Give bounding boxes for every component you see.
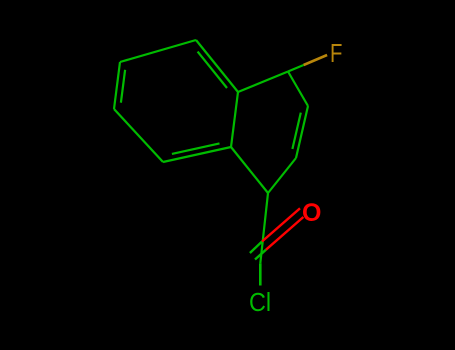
C=O double bond line 2 green half <box>255 250 266 260</box>
bond carbonyl C to Cl label <box>259 263 262 285</box>
atom label Cl <box>249 287 271 318</box>
ring bond P-A <box>196 40 238 92</box>
ring bond A-B <box>120 40 196 62</box>
atom label O <box>302 199 321 228</box>
ring bond G-H <box>288 72 308 107</box>
olive half of bond G to F label <box>304 55 328 65</box>
double bond inner line H=I <box>292 113 300 149</box>
bond J to carbonyl C <box>260 193 268 263</box>
ring bond J-Q <box>231 147 268 193</box>
double bond inner line P=A <box>198 52 227 88</box>
ring bond D-Q <box>163 147 231 162</box>
ring bond P-G <box>238 72 288 93</box>
C=O double bond line 2 red half <box>266 217 303 250</box>
double bond inner line B=C <box>121 70 125 103</box>
ring bond I-J <box>268 158 296 193</box>
ring bond H-I <box>296 106 308 158</box>
C=O double bond line 1 green half <box>250 242 262 254</box>
double bond inner line D=Q <box>172 143 220 154</box>
green half of bond G to F label <box>288 65 304 72</box>
C=O double bond line 1 red half <box>262 208 300 241</box>
atom label F <box>330 38 342 69</box>
ring bond C-D <box>114 109 163 162</box>
ring bond B-C <box>114 62 120 109</box>
ring fusion bond Q-P <box>231 92 238 147</box>
